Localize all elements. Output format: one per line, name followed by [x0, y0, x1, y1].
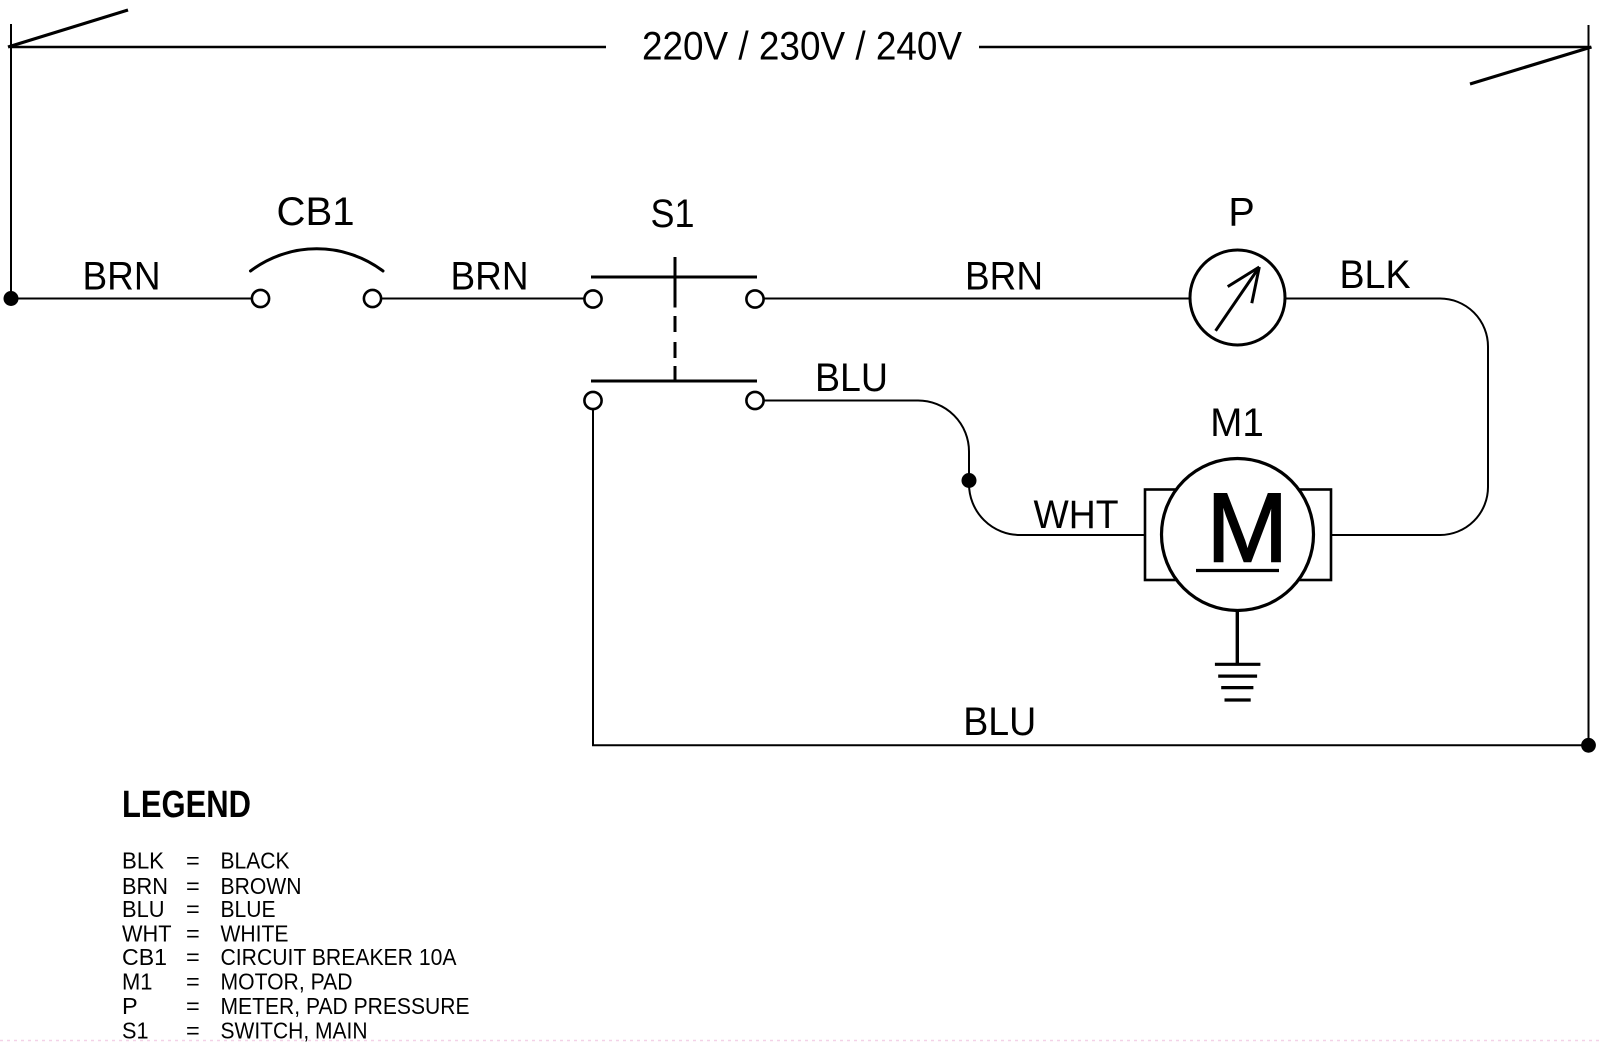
svg-text:SWITCH, MAIN: SWITCH, MAIN [221, 1017, 368, 1043]
wire BLK from meter down right side to motor [1285, 299, 1488, 536]
wire left vertical drop from top rail [10, 24, 12, 298]
svg-text:=: = [186, 993, 200, 1019]
svg-text:LEGEND: LEGEND [122, 784, 251, 826]
wire BLU from S1 lower pole to WHT node [764, 401, 1146, 536]
svg-text:BLK: BLK [1340, 253, 1411, 297]
CB1 right terminal circle [364, 290, 381, 307]
S1 lower pole bar [591, 380, 757, 383]
svg-text:WHT: WHT [1034, 493, 1119, 537]
wire top rail left segment [11, 46, 606, 48]
meter P [1190, 191, 1285, 346]
meter needle barb upper [1228, 267, 1260, 287]
wire BRN from CB1 to S1 [382, 298, 585, 300]
svg-text:CIRCUIT BREAKER 10A: CIRCUIT BREAKER 10A [221, 944, 457, 970]
junction dot WHT node [962, 473, 977, 488]
svg-text:=: = [186, 896, 200, 922]
svg-text:=: = [186, 1017, 200, 1043]
S1 upper pole bar [591, 276, 757, 279]
svg-text:M1: M1 [1210, 401, 1264, 445]
S1 upper pole actuator tick [674, 257, 677, 308]
svg-text:BLU: BLU [122, 896, 165, 922]
svg-text:MOTOR, PAD: MOTOR, PAD [221, 969, 353, 995]
svg-text:BLACK: BLACK [221, 848, 290, 874]
ground bar 4 [1225, 698, 1251, 701]
meter needle shaft [1216, 267, 1260, 331]
ground bar 3 [1221, 686, 1253, 689]
continuation slash left [8, 10, 128, 47]
svg-text:CB1: CB1 [277, 190, 355, 234]
svg-text:=: = [186, 848, 200, 874]
meter needle barb lower [1252, 267, 1260, 303]
continuation slash right [1470, 47, 1592, 84]
svg-text:M1: M1 [122, 969, 153, 995]
svg-text:BRN: BRN [965, 255, 1043, 299]
motor left terminal box [1145, 490, 1200, 581]
motor right terminal box [1285, 490, 1331, 581]
ground stem [1236, 611, 1239, 665]
svg-text:METER, PAD PRESSURE: METER, PAD PRESSURE [221, 993, 470, 1019]
svg-text:P: P [122, 993, 138, 1019]
wire BRN from left rail to CB1 [11, 298, 251, 300]
S1 linkage dash 1 [674, 316, 677, 332]
S1 lower right terminal circle [746, 392, 763, 409]
motor M1 [1145, 401, 1331, 611]
motor letter underline [1196, 569, 1279, 572]
S1 upper right terminal circle [746, 290, 763, 307]
switch S1 [584, 192, 763, 409]
S1 lower left terminal circle [584, 392, 601, 409]
wire BRN from S1 to meter P [764, 298, 1191, 300]
S1 lower pole actuator tick [674, 366, 677, 382]
svg-text:WHITE: WHITE [221, 921, 289, 947]
svg-text:=: = [186, 921, 200, 947]
svg-text:BRN: BRN [83, 255, 161, 299]
svg-text:BLUE: BLUE [221, 896, 276, 922]
S1 upper left terminal circle [584, 290, 601, 307]
circuit breaker CB1 [251, 190, 384, 307]
wire BLU bottom return [593, 409, 1589, 745]
svg-text:M: M [1206, 473, 1288, 583]
wire right vertical drop [1588, 25, 1590, 745]
svg-text:BLU: BLU [815, 356, 888, 400]
svg-text:S1: S1 [651, 192, 695, 236]
svg-text:S1: S1 [122, 1017, 149, 1043]
junction dot left rail [4, 291, 19, 306]
svg-text:P: P [1228, 191, 1254, 235]
CB1 arc [251, 249, 384, 271]
svg-text:BLU: BLU [963, 700, 1036, 744]
motor body circle [1162, 459, 1314, 611]
svg-text:BRN: BRN [451, 255, 529, 299]
junction dot bottom right [1581, 738, 1596, 753]
S1 linkage dash 2 [674, 342, 677, 358]
svg-text:CB1: CB1 [122, 944, 167, 970]
ground bar 2 [1218, 674, 1257, 677]
svg-text:220V / 230V / 240V: 220V / 230V / 240V [642, 25, 963, 69]
ground [1215, 611, 1261, 701]
svg-text:=: = [186, 969, 200, 995]
svg-text:BLK: BLK [122, 848, 164, 874]
svg-text:WHT: WHT [122, 921, 172, 947]
meter circle [1190, 250, 1285, 345]
faint scan artifact dotted line bottom [0, 1040, 1600, 1042]
wire top rail right segment [979, 46, 1589, 48]
ground bar 1 [1215, 663, 1261, 666]
svg-text:=: = [186, 944, 200, 970]
CB1 left terminal circle [252, 290, 269, 307]
